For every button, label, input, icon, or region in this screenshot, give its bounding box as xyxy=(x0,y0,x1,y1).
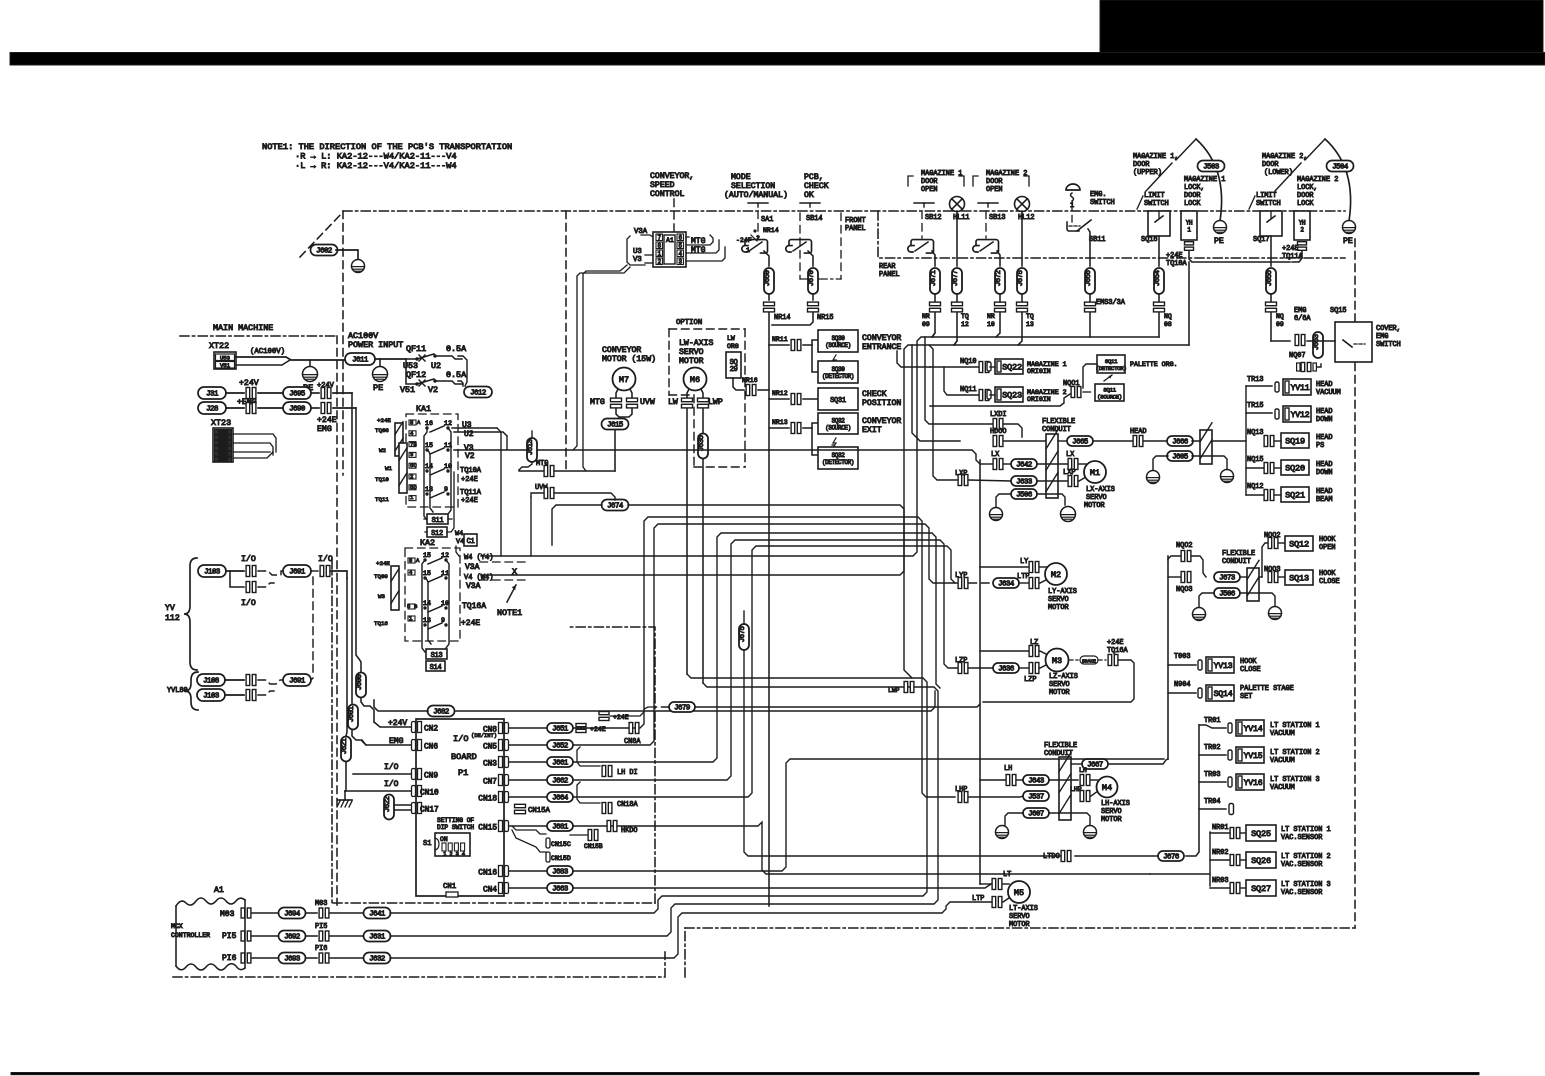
svg-text:PI6: PI6 xyxy=(222,954,237,963)
box YV14 xyxy=(1228,723,1232,733)
svg-text:ORIGIN: ORIGIN xyxy=(1027,396,1051,403)
connector pair NQ15 xyxy=(1264,463,1268,474)
svg-text:LXDI: LXDI xyxy=(990,411,1007,419)
svg-text:LW-AXIS: LW-AXIS xyxy=(679,339,713,348)
wire NQ15 xyxy=(1246,467,1263,469)
connector pair NQ08 xyxy=(1154,302,1165,306)
connector CN15D xyxy=(546,852,550,862)
svg-text:SQ19: SQ19 xyxy=(1285,437,1305,447)
wire SQ17 down xyxy=(1270,236,1272,266)
svg-text:VAC.SENSOR: VAC.SENSOR xyxy=(1281,834,1322,842)
svg-text:SERVO: SERVO xyxy=(1009,913,1030,921)
emg mushroom button xyxy=(1066,184,1080,190)
svg-text:YV: YV xyxy=(165,604,175,613)
ground PE (main machine) xyxy=(303,367,318,382)
wire TQ13 down xyxy=(1018,313,1022,345)
wire conduit hook right xyxy=(1259,576,1262,578)
svg-text:CN7: CN7 xyxy=(483,778,497,786)
connector CN8 xyxy=(499,723,503,734)
svg-text:CN16: CN16 xyxy=(478,869,497,877)
svg-text:CN10: CN10 xyxy=(420,789,439,797)
box SQ31 xyxy=(818,388,858,410)
connector CN18 xyxy=(499,792,503,803)
wire J506h left xyxy=(1199,593,1214,607)
switch box SQ15 xyxy=(1335,322,1372,362)
svg-text:MAGAZINE 2,: MAGAZINE 2, xyxy=(1262,153,1308,161)
svg-text:M03: M03 xyxy=(220,910,235,919)
connector pair +24V xyxy=(246,388,250,399)
connector CN15 xyxy=(499,821,503,832)
svg-text:(AC100V): (AC100V) xyxy=(250,348,285,356)
wire NR14 bottom xyxy=(769,906,900,910)
wire J676 left xyxy=(1075,855,1158,857)
svg-text:SQ22: SQ22 xyxy=(1002,363,1022,373)
svg-text:LOCK,: LOCK, xyxy=(1297,184,1318,192)
lightning bolt 2 xyxy=(832,438,836,448)
wire J662 path xyxy=(573,540,957,780)
relay KA2 contact wires xyxy=(422,560,425,652)
connector J607 xyxy=(1023,808,1049,818)
wire NQ07 stub xyxy=(1317,364,1321,367)
connector pair I/O a xyxy=(246,566,250,577)
connector J681 xyxy=(547,821,573,831)
wire LHDI right xyxy=(613,535,652,771)
svg-text:MOTOR: MOTOR xyxy=(1101,816,1122,824)
svg-text:(AUTO/MANUAL): (AUTO/MANUAL) xyxy=(724,190,788,200)
wire center dashed vertical xyxy=(565,211,567,470)
svg-text:J631: J631 xyxy=(369,934,386,942)
svg-text:OPTION: OPTION xyxy=(676,319,702,327)
svg-text:LY: LY xyxy=(1020,558,1029,566)
svg-text:VACUUM: VACUUM xyxy=(1270,730,1295,738)
box SQ20 xyxy=(1281,460,1309,475)
svg-text:UVW: UVW xyxy=(640,398,655,407)
svg-text:TR13: TR13 xyxy=(1247,376,1264,384)
box C1 xyxy=(464,534,477,546)
wire J506 left gnd xyxy=(996,494,1011,507)
svg-text:LH DI: LH DI xyxy=(617,769,638,777)
connector J664 xyxy=(547,792,573,802)
svg-text:TQ11A: TQ11A xyxy=(1282,253,1304,261)
wire J602 to ground xyxy=(336,250,358,259)
svg-text:112: 112 xyxy=(165,614,180,623)
wire to J690 xyxy=(258,407,284,409)
wire J631 path xyxy=(390,683,938,936)
wire NQ09 down xyxy=(1270,313,1272,341)
svg-text:EMG: EMG xyxy=(317,425,332,434)
svg-text:NR11: NR11 xyxy=(772,336,788,343)
connector CN3 xyxy=(499,757,503,768)
wire LT xyxy=(980,883,991,885)
wire J694 out xyxy=(306,912,317,914)
ground PE (power input) xyxy=(373,367,388,382)
wire NQO2 l xyxy=(1168,556,1180,560)
wire TR04 xyxy=(1199,808,1226,810)
wire TR03 xyxy=(1199,781,1226,783)
connector pair LXP right xyxy=(1068,476,1072,487)
svg-text:15: 15 xyxy=(423,552,431,559)
wire +24V into boundary xyxy=(333,392,352,394)
svg-text:QF12: QF12 xyxy=(406,370,426,380)
svg-text:SQ21: SQ21 xyxy=(1285,491,1305,501)
wire YH2 down xyxy=(1292,251,1302,262)
svg-text:5D: 5D xyxy=(410,484,417,491)
wire bottom boundary right xyxy=(685,927,1355,929)
dashed X zone xyxy=(480,561,530,563)
svg-text:U2: U2 xyxy=(431,361,441,371)
svg-text:·R → L: KA2-12---W4/KA2-11---: ·R → L: KA2-12---W4/KA2-11---V4 xyxy=(295,152,457,162)
svg-text:XT23: XT23 xyxy=(211,418,231,428)
svg-text:LT STATION 2: LT STATION 2 xyxy=(1270,749,1320,757)
box SQ32 source xyxy=(818,413,858,434)
box SQ14 xyxy=(1198,688,1202,698)
connector pair HDOO xyxy=(993,436,997,447)
svg-text:POWER INPUT: POWER INPUT xyxy=(348,340,403,350)
svg-text:NR14: NR14 xyxy=(774,314,791,322)
connector pair NQ10 xyxy=(979,362,983,373)
svg-text:8: 8 xyxy=(409,557,412,564)
svg-text:SQ30: SQ30 xyxy=(832,366,846,373)
relay KA1 contact wires xyxy=(424,428,427,520)
svg-text:12: 12 xyxy=(444,420,452,427)
connector pair LX right xyxy=(1068,459,1072,470)
svg-text:14: 14 xyxy=(423,600,431,607)
connector pair LH left xyxy=(1006,775,1010,786)
svg-text:NQO2: NQO2 xyxy=(1176,542,1193,550)
svg-text:SERVO: SERVO xyxy=(679,348,704,357)
svg-text:BEAM: BEAM xyxy=(1316,496,1333,504)
svg-text:HEAD: HEAD xyxy=(1130,428,1147,436)
svg-text:SQ11: SQ11 xyxy=(1103,386,1116,393)
relay KA2 coil hatch xyxy=(391,566,399,610)
connector J103 xyxy=(198,565,226,577)
connector pair PI5 b xyxy=(319,931,323,941)
wire SB12 stem xyxy=(921,211,923,238)
connector pair CN8A xyxy=(629,723,633,734)
connector CN15A sym xyxy=(515,804,526,807)
connector CN15C xyxy=(546,838,550,848)
connector J621 (vertical) xyxy=(341,737,351,762)
wire lh conns motor xyxy=(1091,779,1098,781)
svg-text:FLEXIBLE: FLEXIBLE xyxy=(1222,550,1255,558)
wire to J631 xyxy=(330,935,365,937)
lightning bolt 1 xyxy=(832,355,836,365)
connector single TR04 xyxy=(1229,804,1234,815)
svg-text:TQ10A: TQ10A xyxy=(1166,260,1188,268)
connector J642 xyxy=(1011,459,1037,469)
ground J605 right xyxy=(1221,470,1234,483)
svg-text:J664: J664 xyxy=(552,795,569,803)
svg-text:J635: J635 xyxy=(698,435,706,451)
connector pair NQ11 xyxy=(979,390,983,401)
svg-text:CN9: CN9 xyxy=(424,772,438,780)
wire conduit to J665 xyxy=(1058,440,1067,442)
wire A1 bundle down xyxy=(583,265,627,471)
connector CN17 xyxy=(412,803,416,814)
svg-text:SB14: SB14 xyxy=(806,215,823,223)
wire branch LXDI xyxy=(925,337,992,424)
svg-text:DOWN: DOWN xyxy=(1316,469,1333,477)
wire U3 drop xyxy=(506,436,508,449)
svg-text:HOOK: HOOK xyxy=(1240,658,1257,666)
svg-text:VAC.SENSOR: VAC.SENSOR xyxy=(1281,861,1322,869)
wire main bus 1 xyxy=(459,504,600,506)
wire J643 right xyxy=(1049,779,1078,781)
wire LTDO left xyxy=(752,855,1060,857)
ground at J602 xyxy=(352,260,365,273)
wire CN15 to J681 xyxy=(509,825,547,827)
connector MTG M7 xyxy=(611,398,622,402)
svg-text:PI6: PI6 xyxy=(315,945,327,953)
connector J631 xyxy=(364,931,391,942)
wire CN18 to J664 xyxy=(509,796,547,798)
brace YVL80 xyxy=(185,672,198,710)
svg-text:CN15A: CN15A xyxy=(528,807,551,815)
relay S11 box xyxy=(427,514,448,524)
relay KA2 dashed box xyxy=(405,548,460,641)
connector J615 xyxy=(602,419,629,430)
connector J694 xyxy=(279,908,306,919)
svg-text:SQ15: SQ15 xyxy=(1330,307,1347,315)
svg-text:J652: J652 xyxy=(552,743,568,751)
svg-text:CLOSE: CLOSE xyxy=(1319,578,1340,586)
svg-text:I/O: I/O xyxy=(241,598,256,608)
svg-text:SWITCH: SWITCH xyxy=(1144,200,1169,208)
svg-text:SQ30: SQ30 xyxy=(832,335,846,342)
connector LW xyxy=(682,398,693,402)
connector UVW M7 xyxy=(627,398,638,402)
wire bottom boundary left xyxy=(173,952,665,977)
svg-text:YV14: YV14 xyxy=(1244,725,1263,734)
svg-text:4: 4 xyxy=(462,851,465,857)
svg-text:HKDO: HKDO xyxy=(621,827,638,835)
wire NR12 xyxy=(769,398,789,400)
wire J681 path xyxy=(573,822,1150,874)
wire J636 conn xyxy=(1019,667,1028,669)
svg-text:V3A: V3A xyxy=(466,582,481,591)
svg-text:CONTROLLER: CONTROLLER xyxy=(171,932,210,939)
svg-text:LZP: LZP xyxy=(1024,676,1037,684)
wire brake conn xyxy=(1098,659,1106,661)
wire SA1 stem xyxy=(757,211,759,238)
svg-text:J103: J103 xyxy=(203,693,219,701)
svg-text:0.5A: 0.5A xyxy=(446,370,467,380)
module A1 pins xyxy=(656,234,663,241)
svg-text:7B: 7B xyxy=(410,441,417,448)
wire main-machine boundary vertical xyxy=(336,336,338,905)
wire LZP row xyxy=(969,667,993,669)
box SQ12 xyxy=(1285,536,1313,551)
wire CN16 to J683 xyxy=(509,870,547,872)
svg-text:LT STATION 1: LT STATION 1 xyxy=(1281,826,1331,834)
connector pair NR14 xyxy=(764,302,775,306)
wire LXDI xyxy=(1004,424,1022,437)
connector CN1 xyxy=(446,892,458,897)
wire HL12 down xyxy=(1021,211,1023,266)
svg-text:16: 16 xyxy=(425,420,433,427)
connector pair LTP ly xyxy=(1029,578,1033,589)
svg-text:J621: J621 xyxy=(341,737,349,754)
wire J691 low dash xyxy=(311,678,313,680)
wire NR11 xyxy=(769,344,789,346)
svg-text:PANEL: PANEL xyxy=(845,225,866,233)
wire J675 vertical xyxy=(743,528,745,611)
wire I/O out to bus xyxy=(331,571,347,578)
connector J601 (vertical) xyxy=(348,705,358,730)
connector J656 (vertical) xyxy=(1085,268,1095,294)
wire NR09 down xyxy=(932,313,935,337)
connector J600 (vertical) xyxy=(356,673,366,698)
wire CN4 to J663 xyxy=(509,887,547,889)
dip switch S1 xyxy=(435,833,470,856)
svg-text:HOOK: HOOK xyxy=(1319,536,1336,544)
wire LZ xyxy=(980,650,1028,652)
wire J670 to conn xyxy=(812,294,814,300)
wire io boundary vertical xyxy=(570,627,655,903)
wire J656 to conn xyxy=(1089,294,1091,301)
connector pair NR11 xyxy=(791,340,795,351)
svg-text:CN18A: CN18A xyxy=(617,801,639,809)
ground lx right xyxy=(1061,507,1076,522)
svg-text:DOOR: DOOR xyxy=(921,178,938,186)
svg-text:6/6A: 6/6A xyxy=(1294,315,1311,323)
wire J652 path xyxy=(573,524,957,745)
wire top boundary horizontal (front panel) xyxy=(343,210,1345,212)
wire NQ12 xyxy=(1246,494,1263,496)
terminal block XT23 xyxy=(213,428,233,462)
svg-text:BOARD: BOARD xyxy=(451,752,477,762)
svg-text:V4: V4 xyxy=(456,538,464,546)
svg-text:J683: J683 xyxy=(552,869,568,877)
svg-text:J653: J653 xyxy=(1313,334,1321,350)
svg-text:0.5A: 0.5A xyxy=(446,344,467,354)
svg-text:OPEN: OPEN xyxy=(921,186,938,194)
svg-text:NR12: NR12 xyxy=(772,390,788,397)
wire brake loop xyxy=(983,660,1134,702)
connector J613 (vertical) xyxy=(527,438,537,462)
wire J108 to conn xyxy=(225,679,244,681)
box YV12 xyxy=(1275,409,1279,419)
svg-text:J692: J692 xyxy=(284,934,300,942)
connector pair YH2 xyxy=(1298,242,1307,245)
svg-text:OK: OK xyxy=(804,191,814,200)
svg-text:M7: M7 xyxy=(619,375,629,385)
wire N904 xyxy=(1168,692,1196,694)
svg-text:J655: J655 xyxy=(1266,270,1274,286)
svg-text:EMG7: EMG7 xyxy=(218,457,228,463)
connector pair LT xyxy=(992,879,996,890)
svg-text:CN2: CN2 xyxy=(424,725,438,733)
wire NR10 down xyxy=(996,313,1000,337)
svg-text:14: 14 xyxy=(425,463,433,470)
motor M5 xyxy=(1008,881,1030,903)
svg-text:PE: PE xyxy=(1343,237,1353,246)
connector pair NQ07 xyxy=(1301,363,1305,372)
svg-text:1: 1 xyxy=(443,851,446,857)
svg-text:TQ: TQ xyxy=(1026,313,1034,320)
svg-text:NQ12: NQ12 xyxy=(1247,483,1264,491)
connector pair CN15B xyxy=(588,830,592,841)
wire M7 to J615 xyxy=(616,409,632,417)
svg-text:PCB,: PCB, xyxy=(804,173,824,182)
connector pair NQO3 l xyxy=(1181,572,1185,583)
svg-text:SB13: SB13 xyxy=(989,214,1006,222)
svg-text:MAGAZINE 1: MAGAZINE 1 xyxy=(921,170,962,178)
connector J673 xyxy=(1214,572,1240,582)
svg-text:SET: SET xyxy=(1240,693,1252,701)
wire branch LXP xyxy=(929,345,957,480)
wire J666 conduit right xyxy=(1192,440,1246,442)
svg-text:J633: J633 xyxy=(1016,479,1032,487)
svg-text:I/O: I/O xyxy=(384,763,399,772)
svg-text:CN6: CN6 xyxy=(424,743,438,751)
svg-text:+24E: +24E xyxy=(1282,245,1299,253)
svg-text:PI5: PI5 xyxy=(222,932,237,941)
svg-text:PS: PS xyxy=(1316,442,1324,450)
wire right boundary vertical xyxy=(1354,239,1356,322)
connector J641 xyxy=(364,908,391,919)
connector pair LZ xyxy=(1029,646,1033,657)
svg-text:MCX: MCX xyxy=(171,923,183,930)
svg-text:+24E: +24E xyxy=(461,497,478,505)
svg-text:J636: J636 xyxy=(998,666,1014,674)
switch SB14 xyxy=(786,246,792,252)
svg-text:J681: J681 xyxy=(552,824,569,832)
connector pair UVW rail xyxy=(544,488,548,499)
connector J692 xyxy=(279,931,306,942)
svg-text:08: 08 xyxy=(1164,321,1172,328)
wire hook bus vertical xyxy=(1167,556,1169,759)
connector J633 xyxy=(1011,476,1037,486)
connector CN9 xyxy=(412,769,416,780)
svg-text:YV13: YV13 xyxy=(1214,662,1233,671)
svg-text:S11: S11 xyxy=(432,517,444,525)
svg-text:TQ16A: TQ16A xyxy=(462,602,486,611)
svg-text:V51: V51 xyxy=(220,362,231,369)
svg-text:TR15: TR15 xyxy=(1247,402,1264,410)
lamp HL12 xyxy=(1015,197,1030,212)
connector pair HKDO xyxy=(607,821,611,832)
connector J31 xyxy=(198,387,226,399)
svg-text:U53: U53 xyxy=(220,354,230,361)
svg-text:SB12: SB12 xyxy=(925,214,942,222)
svg-text:PE: PE xyxy=(1214,237,1224,246)
svg-text:J667: J667 xyxy=(1087,762,1103,770)
wire dashed to J691 xyxy=(258,571,284,575)
wire UVW rail xyxy=(531,493,543,497)
connector pair LHP right xyxy=(1080,791,1084,802)
box YV13 xyxy=(1198,660,1202,670)
wire nr bus vertical xyxy=(1209,832,1211,886)
svg-text:CN5: CN5 xyxy=(483,743,497,751)
connector J506 (lx) xyxy=(1011,489,1037,499)
wire J622 link xyxy=(388,794,390,797)
connector pair HEAD xyxy=(1133,436,1137,447)
box SQ25 xyxy=(1246,825,1276,841)
svg-text:+24E: +24E xyxy=(461,476,478,484)
connector pair PI6 a xyxy=(241,953,245,963)
svg-text:NR: NR xyxy=(922,313,930,320)
svg-text:HOOK: HOOK xyxy=(1319,570,1336,578)
svg-text:SQ14: SQ14 xyxy=(1214,690,1233,699)
wire branch NQ10 xyxy=(897,351,930,367)
wire CN15B stub xyxy=(570,834,587,836)
conduit hook xyxy=(1247,568,1259,601)
svg-text:SQ25: SQ25 xyxy=(1251,829,1271,839)
connector J682 xyxy=(428,706,455,717)
wire NR15 to NR14 bus xyxy=(772,313,813,325)
wire PI6 xyxy=(252,957,280,959)
